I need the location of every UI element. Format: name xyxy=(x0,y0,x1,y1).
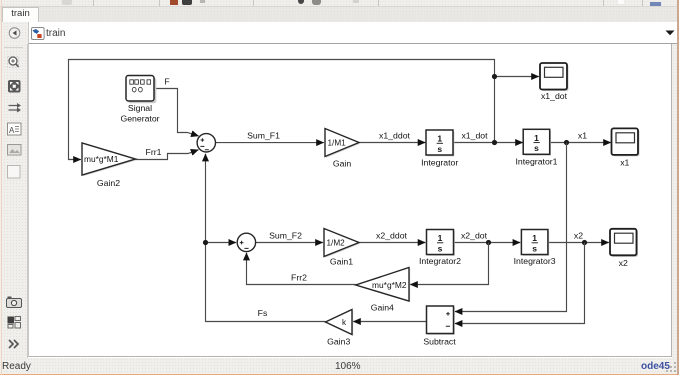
wire: feedback x1_dot to Gain2 xyxy=(69,60,495,160)
left window border xyxy=(1,0,3,375)
svg-text:Integrator1: Integrator1 xyxy=(515,157,557,167)
svg-text:1: 1 xyxy=(534,133,539,143)
wire: Fs branch to Sum1(row2) xyxy=(206,242,237,244)
tab bar xyxy=(0,6,680,22)
label: Sum_F1 xyxy=(247,130,280,140)
sum U2 (round + -) xyxy=(237,233,255,251)
svg-text:mu*g*M1: mu*g*M1 xyxy=(84,154,119,164)
label: x2_dot (wire) xyxy=(461,230,488,240)
node: junction x1_dot xyxy=(492,140,497,145)
label: Gain2 xyxy=(97,178,120,188)
svg-text:Frr2: Frr2 xyxy=(291,273,307,283)
node: junction on x1_dot tap xyxy=(492,74,497,79)
subtract block xyxy=(427,306,455,335)
sum U1 (round + - -) xyxy=(197,134,215,152)
wire: x1 down to Subtract plus xyxy=(455,143,567,312)
svg-text:mu*g*M2: mu*g*M2 xyxy=(372,280,407,290)
label: x1_ddot xyxy=(379,130,411,140)
svg-text:1/M1: 1/M1 xyxy=(328,139,347,148)
back button xyxy=(7,25,23,41)
svg-text:x1_ddot: x1_ddot xyxy=(379,130,411,140)
svg-text:Gain2: Gain2 xyxy=(97,178,120,188)
gain Gain (1/M1) xyxy=(325,129,360,158)
wire: x2_dot down to Gain4 xyxy=(410,243,488,285)
svg-text:s: s xyxy=(532,243,537,253)
node: junction x2 xyxy=(582,240,587,245)
label: Sum_F2 xyxy=(269,230,302,240)
integrator block xyxy=(426,130,454,156)
label: F xyxy=(164,77,169,87)
canvas xyxy=(28,44,672,357)
svg-text:Gain3: Gain3 xyxy=(327,337,350,347)
status bar xyxy=(0,358,680,374)
toolbar icons xyxy=(4,53,24,183)
label: x1_dot (scope) xyxy=(541,91,568,101)
gain Gain4 (mu*g*M2, flipped) xyxy=(356,268,411,303)
svg-text:Sum_F1: Sum_F1 xyxy=(247,130,280,140)
gain Gain2 xyxy=(82,143,137,176)
svg-text:Gain: Gain xyxy=(333,159,352,169)
svg-text:x1_dot: x1_dot xyxy=(461,130,488,140)
left toolbar xyxy=(0,44,28,358)
chevrons xyxy=(9,340,18,348)
label: Integrator xyxy=(421,158,458,168)
node: junction Fs xyxy=(203,240,208,245)
svg-text:Integrator3: Integrator3 xyxy=(514,256,556,266)
wire: x1_dot Integrator to Integrator1 xyxy=(454,142,523,144)
label: Integrator2 xyxy=(419,256,461,266)
svg-text:Gain1: Gain1 xyxy=(330,257,353,267)
breadcrumb row xyxy=(0,22,680,44)
label: Gain3 xyxy=(327,337,350,347)
svg-text:F: F xyxy=(164,77,169,87)
wire: Sum_F1 Sum to Gain xyxy=(216,142,324,144)
empty box icon xyxy=(8,166,21,179)
svg-text:Generator: Generator xyxy=(120,114,159,124)
two-arrow icon xyxy=(9,106,18,111)
svg-text:1: 1 xyxy=(532,233,537,243)
label: x2 (wire) xyxy=(574,230,583,240)
wire: Sum_F2 Sum1 to Gain1 xyxy=(256,242,323,244)
zoom icon xyxy=(8,57,19,68)
wire: x1_ddot Gain to Integrator xyxy=(359,142,425,144)
svg-text:Integrator: Integrator xyxy=(421,158,458,168)
label: Integrator3 xyxy=(514,256,556,266)
label: Frr1 xyxy=(146,147,162,157)
scope x2 xyxy=(610,229,638,257)
svg-text:x2: x2 xyxy=(619,258,628,268)
label: Frr2 xyxy=(291,273,307,283)
node: junction x1 xyxy=(564,140,569,145)
label: Integrator1 xyxy=(515,157,557,167)
integrator2 block xyxy=(427,230,455,256)
svg-text:s: s xyxy=(534,143,539,153)
label: x2_ddot xyxy=(376,230,408,240)
annotation icon xyxy=(8,123,22,135)
right window border xyxy=(677,0,679,375)
scope x1_dot xyxy=(540,63,569,91)
wire: tap to scope x1_dot xyxy=(495,76,539,78)
svg-text:A: A xyxy=(9,126,15,135)
wire: Frr2 Gain4 to Sum1 bottom xyxy=(247,253,356,285)
label: Gain1 xyxy=(330,257,353,267)
wire: x2_ddot Gain1 to Integrator2 xyxy=(359,242,425,244)
wire: x2 Integrator3 to scope xyxy=(548,242,609,244)
gain Gain3 (k, flipped) xyxy=(325,310,353,336)
scope x1 xyxy=(612,128,640,156)
svg-text:Frr1: Frr1 xyxy=(146,147,162,157)
wire: F from Signal Generator to Sum xyxy=(154,89,198,137)
label: Fs xyxy=(258,308,268,318)
simulink model icon xyxy=(31,27,45,41)
top cut-off toolbar strip xyxy=(0,0,680,6)
svg-text:x2_ddot: x2_ddot xyxy=(376,230,408,240)
fit to view icon xyxy=(8,80,21,93)
svg-text:x2_dot: x2_dot xyxy=(461,230,488,240)
label: Gain xyxy=(333,159,352,169)
wire: Frr1 from Gain2 to Sum xyxy=(136,150,199,160)
svg-text:s: s xyxy=(438,243,443,253)
label: x1 (wire) xyxy=(578,130,587,140)
integrator3 block xyxy=(521,230,549,256)
svg-text:Signal: Signal xyxy=(128,103,152,113)
label: Signal Generator xyxy=(120,103,159,124)
dropdown caret xyxy=(664,29,676,37)
svg-text:x2: x2 xyxy=(574,230,583,240)
wire: x2 down to Subtract minus xyxy=(455,243,585,324)
svg-text:Integrator2: Integrator2 xyxy=(419,256,461,266)
svg-text:Gain4: Gain4 xyxy=(371,303,394,313)
gain Gain1 (1/M2) xyxy=(324,229,360,258)
signal generator block xyxy=(126,76,156,104)
svg-text:x1: x1 xyxy=(620,158,629,168)
svg-text:Sum_F2: Sum_F2 xyxy=(269,230,302,240)
wire: x2_dot Integrator2 to Integrator3 xyxy=(454,242,520,244)
label: Subtract xyxy=(423,336,456,346)
svg-text:1: 1 xyxy=(437,134,442,144)
blocks icon xyxy=(8,317,15,324)
node: junction x2_dot xyxy=(486,240,491,245)
label: x2 (scope) xyxy=(619,258,628,268)
svg-text:Subtract: Subtract xyxy=(423,336,456,346)
label: Gain4 xyxy=(371,303,394,313)
svg-text:x1: x1 xyxy=(578,130,587,140)
svg-text:s: s xyxy=(437,144,442,154)
bottom window border xyxy=(0,374,680,375)
right gutter xyxy=(672,44,677,358)
wire: Fs from Gain3 up to Sum bottom xyxy=(206,154,326,322)
svg-text:x1_dot: x1_dot xyxy=(541,91,568,101)
svg-text:Fs: Fs xyxy=(258,308,268,318)
camera icon xyxy=(7,299,22,308)
integrator1 block xyxy=(523,129,551,155)
image icon xyxy=(8,145,22,156)
label: x1_dot (wire) xyxy=(461,130,488,140)
wire: Subtract to Gain3 xyxy=(353,321,426,323)
label: x1 (scope) xyxy=(620,158,629,168)
wire: x1 Integrator1 to scope xyxy=(550,142,611,144)
svg-text:1: 1 xyxy=(438,233,443,243)
svg-text:1/M2: 1/M2 xyxy=(327,239,346,248)
